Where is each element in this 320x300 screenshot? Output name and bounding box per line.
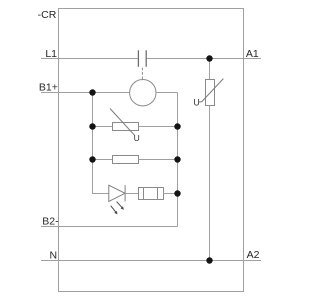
LED emission arrow 1	[111, 206, 118, 215]
varistor U (branch 1)	[110, 109, 139, 136]
wire varistor branch lower (varistor to A2)	[209, 106, 211, 261]
svg-text:N: N	[50, 249, 58, 261]
device enclosure frame	[59, 9, 244, 292]
wire right bus	[177, 93, 179, 227]
wire B2- line	[41, 226, 178, 228]
wire left bus	[92, 93, 94, 195]
wire L1 to contact (rung 1 left segment)	[41, 58, 138, 60]
wire varistor branch upper (A1 to varistor)	[209, 59, 211, 80]
block (box with end bars, branch 3)	[139, 188, 164, 200]
wire branch 2 left	[93, 159, 113, 161]
svg-text:U: U	[134, 133, 140, 143]
junction A2 line / varistor branch	[206, 257, 212, 263]
wire branch 1 right	[139, 126, 178, 128]
wire LED to block	[125, 193, 138, 195]
junction left bus / branch 2	[89, 156, 95, 162]
wire branch 3 left	[93, 193, 109, 195]
wire contact to A1 (rung 1 right segment)	[146, 58, 261, 60]
mechanical link (dashed)	[141, 68, 143, 79]
junction right bus / branch 2	[174, 156, 180, 162]
junction A1 line / varistor branch	[206, 55, 212, 61]
junction right bus / branch 3	[174, 190, 180, 196]
resistor (branch 2)	[113, 156, 139, 164]
svg-text:A1: A1	[246, 48, 259, 60]
svg-text:L1: L1	[45, 48, 57, 60]
wire branch 2 right	[139, 159, 178, 161]
LED emission arrow 2	[117, 202, 124, 210]
LED	[109, 185, 125, 201]
svg-text:-CR: -CR	[38, 9, 57, 21]
svg-text:U: U	[193, 97, 199, 107]
svg-text:B2-: B2-	[42, 216, 59, 228]
wire N to A2 line	[41, 260, 261, 262]
NO contact -CR	[138, 50, 146, 67]
junction left bus / branch 1	[89, 123, 95, 129]
wire branch 1 left	[93, 126, 113, 128]
svg-text:A2: A2	[247, 249, 260, 261]
junction B1+ / left bus	[89, 89, 95, 95]
varistor U (A1-A2)	[199, 79, 224, 106]
wire coil to right bus	[156, 92, 178, 94]
coil (circle)	[130, 80, 156, 106]
svg-text:B1+: B1+	[39, 81, 58, 93]
wire B1+ to coil	[41, 92, 130, 94]
wire block to right bus	[163, 193, 178, 195]
junction right bus / branch 1	[174, 123, 180, 129]
